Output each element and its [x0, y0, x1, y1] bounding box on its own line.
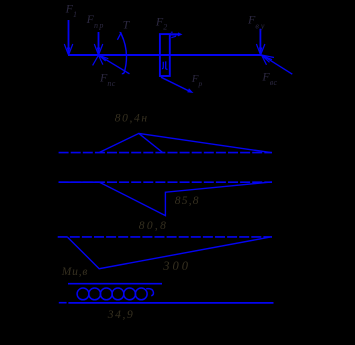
svg-text:85,8: 85,8: [175, 195, 200, 207]
svg-text:Ми,в: Ми,в: [61, 266, 88, 278]
svg-text:300: 300: [162, 259, 191, 273]
svg-text:80,4н: 80,4н: [115, 112, 149, 124]
svg-text:34,9: 34,9: [107, 309, 135, 321]
svg-text:80,8: 80,8: [139, 220, 168, 232]
